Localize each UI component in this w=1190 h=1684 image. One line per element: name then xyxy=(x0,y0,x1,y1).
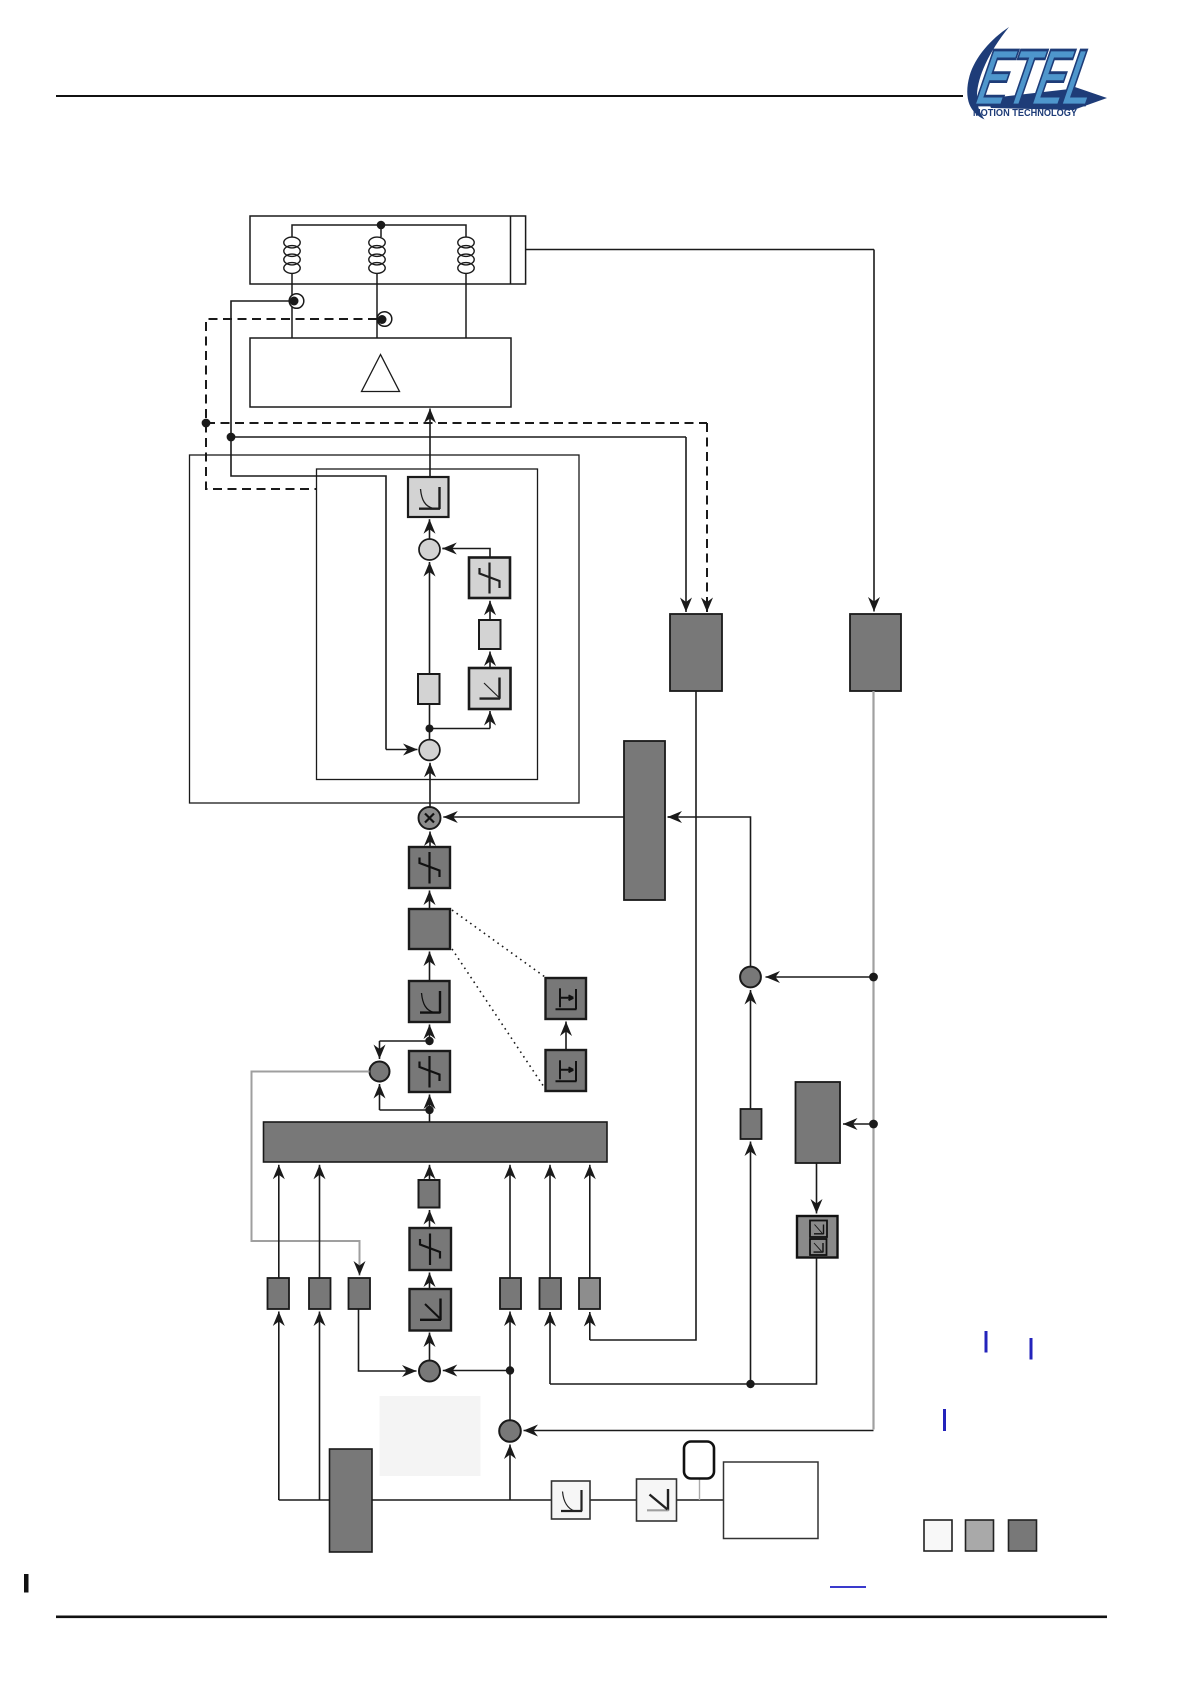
svg-text:MOTION TECHNOLOGY: MOTION TECHNOLOGY xyxy=(973,108,1077,119)
